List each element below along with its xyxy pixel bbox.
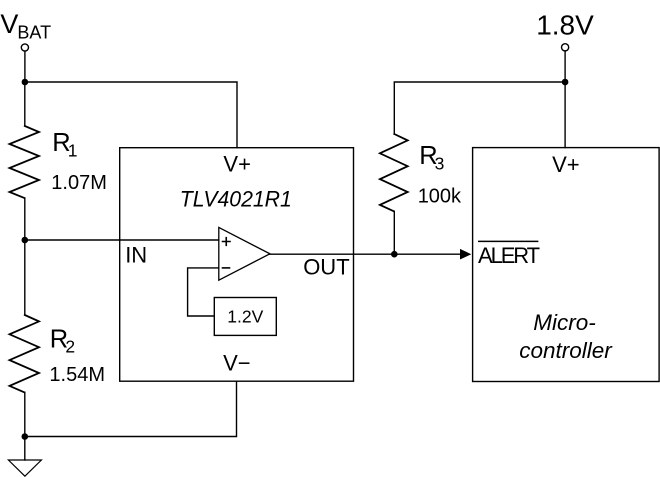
svg-text:controller: controller xyxy=(519,338,613,363)
node divider junction xyxy=(22,237,29,244)
wire divider node down to R2 xyxy=(24,240,26,315)
node ground junction xyxy=(22,433,29,440)
wire 1.8V terminal to junction xyxy=(564,51,566,82)
wire OUT to ALERT arrow xyxy=(270,253,461,255)
svg-text:OUT: OUT xyxy=(303,255,349,280)
svg-text:IN: IN xyxy=(125,243,147,268)
wire 1.8V rail to R3 top xyxy=(394,82,565,134)
wire ground junction to comparator V- return xyxy=(25,381,237,436)
node OUT junction xyxy=(391,251,398,258)
voltage reference 1.2V box xyxy=(214,298,276,336)
label R3 xyxy=(419,142,444,173)
svg-text:Micro-: Micro- xyxy=(533,310,596,335)
svg-text:BAT: BAT xyxy=(17,22,51,42)
svg-text:1.2V: 1.2V xyxy=(227,307,263,327)
svg-text:100k: 100k xyxy=(418,186,462,208)
node VBAT junction xyxy=(22,79,29,86)
op-amp - input marker xyxy=(223,267,230,269)
svg-text:ALERT: ALERT xyxy=(478,243,540,268)
svg-text:3: 3 xyxy=(435,154,445,174)
svg-text:V+: V+ xyxy=(552,152,580,177)
op-amp U1 box TLV4021R1 xyxy=(120,148,354,382)
wire IN (divider node to comparator + input) xyxy=(25,239,219,241)
svg-text:1.07M: 1.07M xyxy=(51,172,107,194)
resistor R3 xyxy=(380,134,408,211)
terminal 1.8V xyxy=(562,44,569,51)
op-amp comparator triangle xyxy=(219,227,270,280)
wire 1.8V junction down to microcontroller V+ xyxy=(564,82,566,148)
microcontroller U2 box xyxy=(473,148,659,382)
wire VBAT terminal to junction xyxy=(24,51,26,82)
svg-text:1.8V: 1.8V xyxy=(536,9,594,40)
ground xyxy=(8,460,41,476)
node 1.8V junction xyxy=(562,79,569,86)
wire VBAT junction down to R1 xyxy=(24,82,26,126)
wire R3 bottom to OUT junction xyxy=(393,211,395,254)
wire R2 bottom to ground junction xyxy=(24,392,26,436)
svg-text:V−: V− xyxy=(223,351,251,376)
wire - input to 1.2V reference xyxy=(188,268,219,316)
svg-text:2: 2 xyxy=(65,337,75,357)
svg-text:V: V xyxy=(0,9,18,39)
svg-text:1.54M: 1.54M xyxy=(49,364,105,386)
arrowhead into ALERT xyxy=(460,249,471,260)
svg-text:V+: V+ xyxy=(223,152,251,177)
label R2 xyxy=(50,325,75,356)
terminal VBAT xyxy=(21,44,28,51)
svg-text:1: 1 xyxy=(68,141,78,161)
svg-text:TLV4021R1: TLV4021R1 xyxy=(180,187,292,212)
resistor R1 xyxy=(10,126,40,198)
node VBAT label xyxy=(0,9,51,43)
pin label ALERT overline xyxy=(479,240,538,242)
wire VBAT junction to comparator V+ xyxy=(25,82,237,148)
op-amp + input marker xyxy=(223,238,231,246)
wire R1 bottom to divider node xyxy=(24,198,26,240)
wire ground junction down to ground symbol xyxy=(24,437,26,461)
resistor R2 xyxy=(10,315,40,392)
label R1 xyxy=(52,129,77,160)
